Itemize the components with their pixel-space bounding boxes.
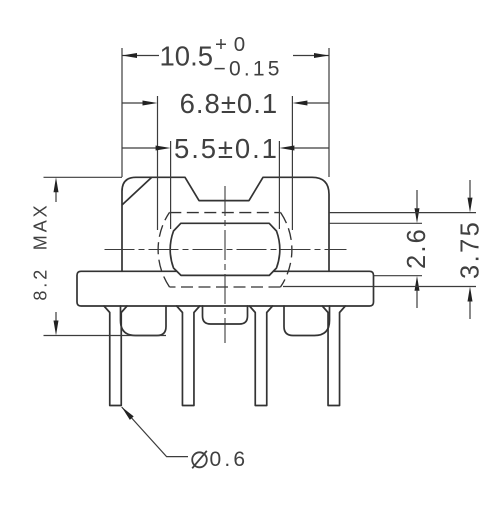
dim 6.8 extension lines — [157, 96, 159, 230]
dim 10.5 lines + arrows — [122, 55, 159, 57]
dim 2.6 lines + arrows — [416, 190, 418, 208]
dim 5.5 lines + arrows — [122, 147, 156, 149]
mounting flange — [77, 271, 374, 306]
svg-text:−0.15: −0.15 — [214, 58, 283, 81]
svg-text:MAX: MAX — [30, 202, 50, 250]
pin 1 — [104, 306, 127, 406]
text dia 0.6 symbol — [192, 452, 207, 467]
left tab — [121, 306, 167, 336]
svg-text:6.8±0.1: 6.8±0.1 — [180, 88, 279, 119]
bobbin body outline — [122, 177, 329, 271]
dim 8.2 MAX extension lines — [44, 176, 123, 178]
pin 3 — [250, 306, 273, 406]
svg-text:0.6: 0.6 — [210, 448, 249, 471]
svg-text:2.6: 2.6 — [403, 227, 431, 269]
dim 5.5 extension lines — [170, 141, 172, 229]
dim 6.8 lines + arrows — [122, 102, 143, 104]
center tab — [203, 306, 248, 324]
dim 10.5 extension lines — [121, 48, 123, 177]
corner gusset chamfer — [123, 178, 152, 205]
pin 2 — [177, 306, 200, 406]
svg-text:3.75: 3.75 — [456, 220, 484, 279]
dim 3.75 lines + arrows — [469, 180, 471, 198]
dim 2.6 extension lines — [329, 222, 422, 224]
dim 8.2 MAX lines + arrows — [55, 192, 57, 202]
leader for pin diameter — [122, 407, 188, 457]
pin 4 — [322, 306, 345, 406]
svg-text:5.5±0.1: 5.5±0.1 — [174, 133, 279, 164]
winding window hole — [170, 223, 279, 275]
dim 3.75 extension lines — [329, 212, 476, 214]
core hidden outline (dashed) — [169, 212, 280, 214]
svg-text:10.5: 10.5 — [160, 41, 214, 72]
vertical centerline — [224, 186, 226, 343]
horizontal centerline — [105, 249, 347, 251]
svg-text:+0: +0 — [215, 33, 245, 56]
right tab — [284, 306, 330, 336]
svg-text:8.2: 8.2 — [30, 267, 50, 301]
